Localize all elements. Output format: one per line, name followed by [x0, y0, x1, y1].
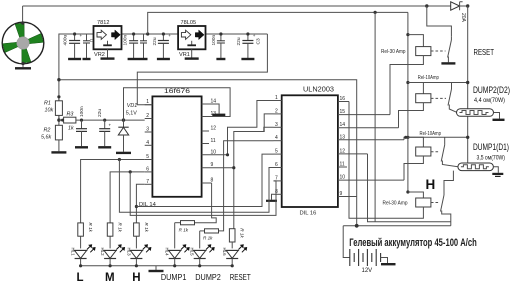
svg-text:+: + — [253, 33, 256, 38]
capacitor 22u before VR1 — [152, 32, 171, 59]
capacitor 100n after VR1 — [211, 32, 225, 59]
capacitor C3 22u output — [236, 32, 262, 59]
svg-text:DUMP1(D1): DUMP1(D1) — [473, 142, 509, 152]
svg-text:Rel-30 Amp: Rel-30 Amp — [381, 49, 406, 55]
svg-text:400u: 400u — [63, 34, 69, 45]
svg-text:4: 4 — [275, 135, 278, 141]
LED HL6 — [222, 245, 246, 266]
svg-text:12: 12 — [211, 126, 217, 132]
svg-text:Гелевый аккумулятор 45-100 A/c: Гелевый аккумулятор 45-100 A/ch — [349, 237, 477, 249]
svg-text:R2: R2 — [44, 128, 51, 134]
wire ULN pin1 to pin10 — [228, 101, 274, 155]
svg-text:R1: R1 — [44, 101, 51, 107]
svg-text:12V: 12V — [362, 268, 373, 274]
resistor R 1k DUMP2 — [200, 229, 219, 249]
svg-text:R 1k: R 1k — [118, 223, 123, 233]
capacitor 22u node — [97, 109, 112, 148]
svg-text:DUMP2: DUMP2 — [195, 273, 221, 282]
svg-text:VR2: VR2 — [94, 52, 105, 58]
wire node to pin13 top route — [124, 88, 231, 120]
svg-text:16: 16 — [340, 96, 346, 102]
wire pin6 to HL2 — [110, 172, 145, 223]
svg-text:5: 5 — [146, 154, 149, 160]
heater DUMP1 — [458, 163, 503, 176]
svg-text:R 1k: R 1k — [240, 228, 245, 238]
svg-text:4,4 ом(70W): 4,4 ом(70W) — [474, 97, 505, 104]
svg-text:100n: 100n — [211, 34, 217, 45]
svg-text:DIL 16: DIL 16 — [300, 211, 317, 217]
wire 5V feed to pin1 — [137, 34, 267, 105]
svg-text:4: 4 — [146, 140, 149, 146]
svg-text:VD1: VD1 — [127, 103, 138, 109]
diode VD7 — [451, 2, 466, 23]
svg-text:7812: 7812 — [97, 20, 109, 26]
svg-text:10: 10 — [340, 175, 346, 181]
node bus joints — [79, 264, 234, 267]
svg-text:HL2: HL2 — [100, 248, 105, 257]
resistor R 1k RESET — [229, 228, 244, 248]
svg-text:HL6: HL6 — [222, 248, 227, 257]
zener VD1 — [116, 103, 137, 153]
svg-text:Rel-10Amp: Rel-10Amp — [420, 131, 442, 137]
wire pin6 branch to ULN pin7 — [130, 172, 276, 216]
svg-text:3,5 ом(70W): 3,5 ом(70W) — [477, 154, 506, 161]
switch S3 DUMP1 — [441, 137, 458, 167]
node top branch — [425, 4, 428, 7]
resistor R1 — [44, 95, 62, 125]
wire pin7 branch to ULN pin5 — [136, 154, 273, 206]
wire pin5 to HL1 — [81, 160, 145, 223]
svg-text:HL3: HL3 — [126, 248, 131, 257]
svg-text:H: H — [132, 272, 140, 284]
battery GB1 12V — [343, 226, 395, 274]
wire pin5 branch to ULN pin6 — [119, 160, 273, 213]
svg-text:1: 1 — [146, 99, 149, 105]
wire long vertical branch — [374, 12, 376, 221]
capacitor 100n node — [75, 106, 88, 147]
svg-text:10k: 10k — [45, 108, 54, 114]
wire main 12V rail — [59, 34, 94, 120]
svg-text:6: 6 — [146, 166, 149, 172]
svg-text:R 1k: R 1k — [179, 228, 189, 233]
node divider — [57, 118, 60, 121]
svg-text:3: 3 — [146, 127, 149, 133]
wire relay feed rail — [407, 12, 409, 192]
IC U1 16f676 — [139, 88, 202, 208]
node right rail D2 — [466, 81, 469, 84]
LED HL4 — [165, 245, 189, 266]
switch S4 H — [441, 171, 454, 226]
svg-text:DUMP1: DUMP1 — [161, 273, 187, 282]
IC U2 ULN2003 — [282, 85, 338, 217]
svg-text:HL1: HL1 — [71, 248, 76, 257]
capacitor C 400u input — [63, 32, 83, 59]
svg-text:5: 5 — [275, 149, 278, 155]
svg-text:3: 3 — [275, 122, 278, 128]
svg-text:RESET: RESET — [474, 48, 495, 57]
resistor R 1k HL3 — [134, 223, 149, 249]
node pin10 junction — [226, 153, 229, 156]
svg-text:R 1k: R 1k — [144, 223, 149, 233]
ground LED bus — [149, 266, 164, 271]
svg-text:ULN2003: ULN2003 — [303, 85, 334, 94]
wire DUMP1 switch feed — [404, 137, 468, 140]
ground R2 — [51, 151, 66, 153]
svg-text:L: L — [77, 272, 84, 284]
regulator VR2 7812 — [94, 20, 122, 58]
svg-text:DIL 14: DIL 14 — [139, 202, 157, 208]
svg-text:HL4: HL4 — [165, 248, 170, 257]
wire diode cathode — [460, 5, 468, 7]
resistor R3 — [59, 112, 145, 132]
svg-text:9: 9 — [211, 162, 214, 168]
svg-text:6: 6 — [275, 162, 278, 168]
wire GND bus to battery — [59, 80, 357, 226]
svg-text:HL5: HL5 — [190, 248, 195, 257]
svg-text:R 1k: R 1k — [88, 223, 93, 233]
svg-text:22u: 22u — [236, 37, 242, 45]
svg-text:RESET: RESET — [230, 273, 251, 282]
pin stubs ULN right — [338, 96, 404, 197]
ground VR2 — [101, 49, 115, 58]
svg-text:78L05: 78L05 — [181, 20, 197, 26]
svg-text:22u: 22u — [152, 37, 158, 45]
svg-text:2: 2 — [275, 108, 278, 114]
svg-text:2: 2 — [146, 113, 149, 119]
svg-text:Rel-30 Amp: Rel-30 Amp — [383, 201, 408, 207]
wire 12V riser to relay feed — [148, 12, 408, 34]
svg-text:C3: C3 — [256, 38, 262, 44]
node diode out — [466, 4, 469, 7]
svg-text:5,6k: 5,6k — [41, 135, 51, 141]
svg-text:14: 14 — [340, 122, 346, 128]
resistor R 1k DUMP1 — [175, 221, 195, 249]
svg-text:7: 7 — [146, 179, 149, 185]
capacitor 100n mid — [123, 32, 140, 59]
pin stubs 16f676 right — [202, 99, 234, 184]
svg-text:H: H — [426, 177, 436, 192]
svg-text:+: + — [168, 33, 171, 38]
svg-text:20A: 20A — [460, 13, 466, 23]
node 12V riser — [146, 32, 149, 35]
ground fan — [15, 62, 31, 69]
resistor R2 — [41, 125, 62, 151]
node pin5 branch — [118, 158, 121, 161]
svg-text:8: 8 — [211, 178, 214, 184]
svg-text:1k: 1k — [68, 126, 74, 132]
node battery junction — [355, 224, 359, 228]
svg-text:1: 1 — [275, 95, 278, 101]
wire pin7 to HL3 — [136, 184, 144, 223]
svg-text:11: 11 — [340, 162, 345, 168]
svg-text:+: + — [80, 33, 83, 38]
wire ULN pin3 elbow — [264, 127, 274, 131]
ground pin14 — [209, 104, 225, 115]
wire branch to RESET switch — [427, 6, 452, 37]
node pin7 branch — [135, 205, 138, 208]
ground VR1 — [185, 49, 199, 58]
node fan top — [21, 21, 24, 24]
relay K3 Rel-10Amp DUMP1 — [404, 131, 441, 180]
svg-text:R3: R3 — [67, 112, 74, 118]
LED HL1 — [71, 245, 96, 266]
svg-text:+: + — [109, 123, 112, 128]
svg-text:15: 15 — [340, 109, 346, 115]
node pin9 junction — [232, 166, 235, 169]
node feed branch — [374, 11, 377, 14]
switch S1 RESET — [441, 37, 455, 64]
heater DUMP2 — [457, 109, 505, 120]
wire fan to top bus — [22, 6, 24, 25]
svg-text:5,1V: 5,1V — [126, 111, 137, 117]
wire ULN pin2 to pin9 and RESET resistor — [234, 114, 274, 229]
svg-text:100n: 100n — [79, 106, 85, 117]
svg-text:n: n — [89, 39, 94, 42]
svg-text:Rel-10Amp: Rel-10Amp — [418, 75, 439, 81]
switch S2 DUMP2 — [448, 83, 457, 113]
svg-text:R 1k: R 1k — [203, 235, 213, 240]
node pin13 junction — [404, 136, 407, 139]
LED HL5 — [190, 245, 214, 266]
fan motor M1 — [2, 22, 44, 64]
relay K1 Rel-30 Amp RESET — [381, 33, 446, 115]
resistor R 1k HL2 — [107, 223, 122, 249]
svg-text:VR1: VR1 — [179, 52, 190, 58]
svg-text:9: 9 — [340, 191, 343, 197]
svg-text:13: 13 — [340, 134, 346, 140]
node gnd bus left — [57, 78, 60, 81]
wire pin8 to DUMP1 resistor — [195, 183, 217, 223]
svg-text:16f676: 16f676 — [164, 88, 190, 95]
pin stubs ULN left — [274, 95, 282, 195]
svg-text:12: 12 — [340, 148, 346, 154]
svg-text:100n: 100n — [123, 34, 129, 45]
relay K4 Rel-30 Amp H — [349, 102, 439, 219]
wire ULN pin4 to DUMP2 resistor — [219, 141, 274, 231]
svg-text:M: M — [105, 272, 115, 284]
wire battery plus line — [343, 225, 451, 227]
wire ULN pin12 to H switch line — [368, 154, 451, 222]
svg-text:22u: 22u — [97, 109, 103, 117]
svg-text:10: 10 — [211, 149, 217, 155]
LED HL3 — [126, 245, 150, 266]
wire right power rail — [467, 6, 469, 163]
node right rail D1 — [466, 136, 469, 139]
ground ULN pin8 — [266, 194, 277, 201]
LED HL2 — [100, 245, 125, 266]
resistor R 1k HL1 — [78, 223, 93, 249]
svg-text:11: 11 — [211, 138, 216, 144]
capacitor ceramic mid — [140, 34, 148, 59]
svg-text:DUMP2(D2): DUMP2(D2) — [473, 85, 510, 95]
regulator VR1 78L05 — [178, 20, 205, 58]
wire LED cathode bus — [81, 265, 233, 267]
capacitor ceramic input — [83, 34, 94, 59]
pin stubs 16f676 left — [145, 99, 153, 185]
relay K2 Rel-10Amp DUMP2 — [399, 75, 447, 128]
node pin6 branch — [129, 170, 132, 173]
wire top +12V bus — [23, 5, 451, 7]
wire DUMP2 switch feed — [408, 82, 468, 84]
